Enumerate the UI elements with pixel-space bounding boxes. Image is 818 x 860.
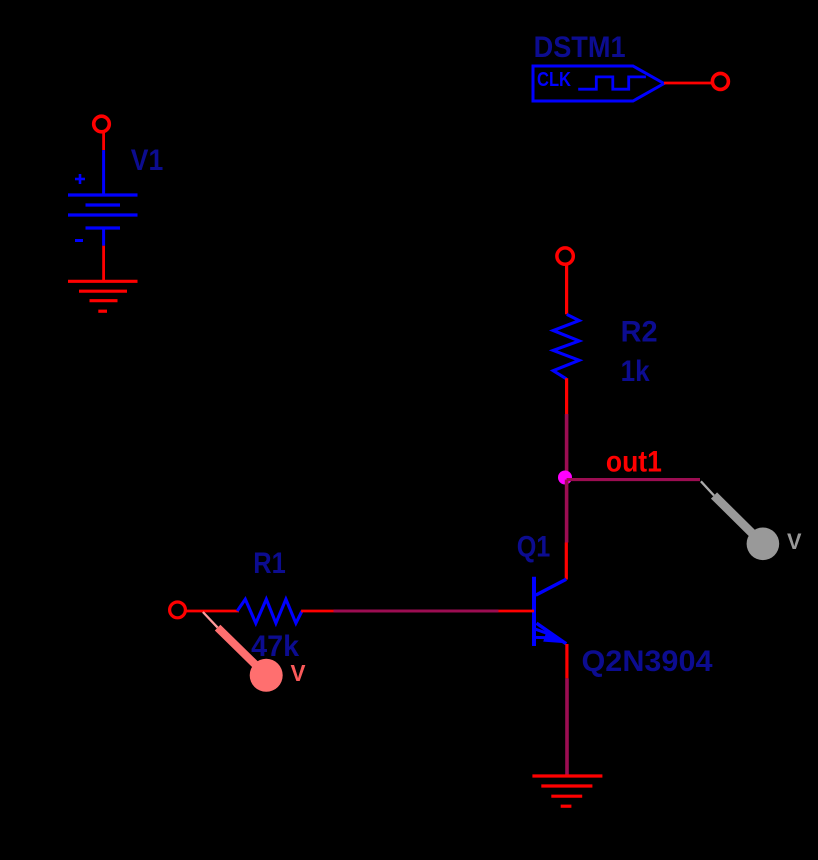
transistor Q1 collector lead <box>536 579 566 595</box>
battery plate long <box>68 213 138 216</box>
resistor R1 <box>237 599 302 623</box>
battery plate short <box>86 203 121 206</box>
svg-text:Q1: Q1 <box>517 530 551 563</box>
voltage source V1 pin stub bottom <box>102 228 105 246</box>
terminal V1 plus <box>94 116 110 132</box>
voltage probe gray bulb <box>747 528 780 561</box>
wire V1 to ground <box>102 246 105 282</box>
wire R2 bottom red <box>565 378 568 414</box>
terminal R1 left <box>170 602 186 618</box>
wire out1 horizontal <box>567 478 700 481</box>
wire base red stub <box>499 610 535 613</box>
wire R1 left <box>187 610 240 613</box>
transistor Q1 base bar <box>532 577 536 646</box>
svg-text:47k: 47k <box>251 630 299 663</box>
voltage source V1 pin stub top <box>102 150 105 195</box>
battery plate short bottom <box>86 226 121 229</box>
junction dot out1 <box>558 471 572 485</box>
wire R1 to base purple <box>334 610 499 613</box>
ground under Q1 <box>532 776 602 806</box>
wire R2 top <box>565 265 568 314</box>
wire emitter red stub <box>565 644 568 678</box>
transistor Q1 emitter arrow tail lower <box>535 636 549 639</box>
svg-text:R1: R1 <box>253 547 285 580</box>
svg-text:R2: R2 <box>621 315 658 348</box>
wire V1 top red <box>102 133 105 151</box>
svg-text:Q2N3904: Q2N3904 <box>582 645 713 678</box>
voltage probe gray shaft <box>714 496 762 544</box>
svg-text:V: V <box>787 529 802 554</box>
voltage probe pink bulb <box>250 659 283 692</box>
svg-text:V1: V1 <box>131 144 164 177</box>
battery plate long top <box>68 193 138 196</box>
svg-text:V: V <box>291 660 307 686</box>
voltage probe pink shaft <box>218 628 266 675</box>
transistor Q1 emitter arrowhead <box>543 631 566 643</box>
clock source DSTM1 body <box>533 66 664 101</box>
svg-text:CLK: CLK <box>537 68 571 91</box>
wire emitter to ground <box>565 678 569 776</box>
plus sign <box>75 174 85 184</box>
svg-text:out1: out1 <box>606 445 662 478</box>
resistor R2 <box>553 314 579 379</box>
wire collector red stub <box>565 543 568 580</box>
voltage probe gray tip <box>701 481 714 495</box>
terminal R2 top <box>557 248 573 264</box>
clock waveform glyph <box>578 77 646 89</box>
wire R2 to node out1 <box>565 414 569 480</box>
terminal DSTM1 output <box>712 73 728 89</box>
wire R1 right red <box>301 610 333 613</box>
minus sign <box>75 239 83 242</box>
transistor Q1 emitter arrow tail upper <box>535 629 552 635</box>
ground under V1 <box>68 281 138 311</box>
transistor Q1 emitter lead <box>537 623 567 644</box>
wire node to collector <box>565 480 569 543</box>
voltage probe pink tip <box>203 612 218 628</box>
svg-text:1k: 1k <box>621 355 650 388</box>
wire DSTM1 output <box>664 82 712 85</box>
svg-text:DSTM1: DSTM1 <box>534 31 626 64</box>
